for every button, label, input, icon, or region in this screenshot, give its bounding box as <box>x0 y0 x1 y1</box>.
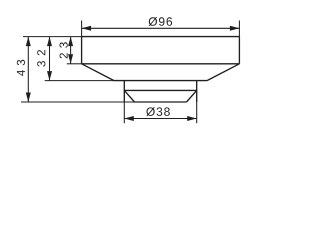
label 23 <box>60 42 68 58</box>
arrow Ø96 left <box>82 26 92 31</box>
cone right slope <box>207 64 239 81</box>
top face <box>82 36 240 38</box>
arrow 32 bottom <box>47 71 52 81</box>
left chamfer <box>124 90 134 102</box>
arrow 43 top <box>26 37 31 47</box>
cone left slope <box>82 64 114 81</box>
dimension line 32 <box>49 37 51 81</box>
dimension line 23 <box>70 37 72 64</box>
arrow 43 bottom <box>26 93 31 103</box>
arrow Ø38 left <box>124 116 134 121</box>
cylinder right wall <box>196 81 198 102</box>
extension line left of Ø38 <box>123 102 125 123</box>
extension line bottom-left <box>21 101 135 103</box>
label 32 <box>37 50 45 67</box>
extension line right of Ø38 <box>196 102 198 123</box>
cylinder left wall <box>123 81 125 102</box>
arrow Ø96 right <box>230 26 240 31</box>
cone bottom edge <box>114 80 207 82</box>
extension line right of Ø96 <box>238 21 240 37</box>
right chamfer <box>187 90 197 102</box>
cylinder inner edge <box>124 89 196 91</box>
arrow Ø38 right <box>187 116 197 121</box>
extension line left of Ø96 <box>81 21 83 37</box>
flange bottom <box>82 63 240 65</box>
arrow 23 bottom <box>68 54 73 64</box>
label Ø96 <box>149 17 173 26</box>
extension line flange-bottom-left <box>67 63 82 65</box>
extension line cone-bottom-left <box>45 80 114 82</box>
extension line top-left <box>23 36 82 38</box>
dimension line Ø96 <box>82 27 240 29</box>
label 43 <box>17 60 25 76</box>
dimension line 43 <box>27 37 29 102</box>
bottom face <box>135 101 187 103</box>
label Ø38 <box>146 107 170 116</box>
right side wall <box>238 37 240 64</box>
arrow 23 top <box>68 37 73 47</box>
dimension line Ø38 <box>124 118 196 120</box>
arrow 32 top <box>47 37 52 47</box>
left side wall <box>81 37 83 64</box>
